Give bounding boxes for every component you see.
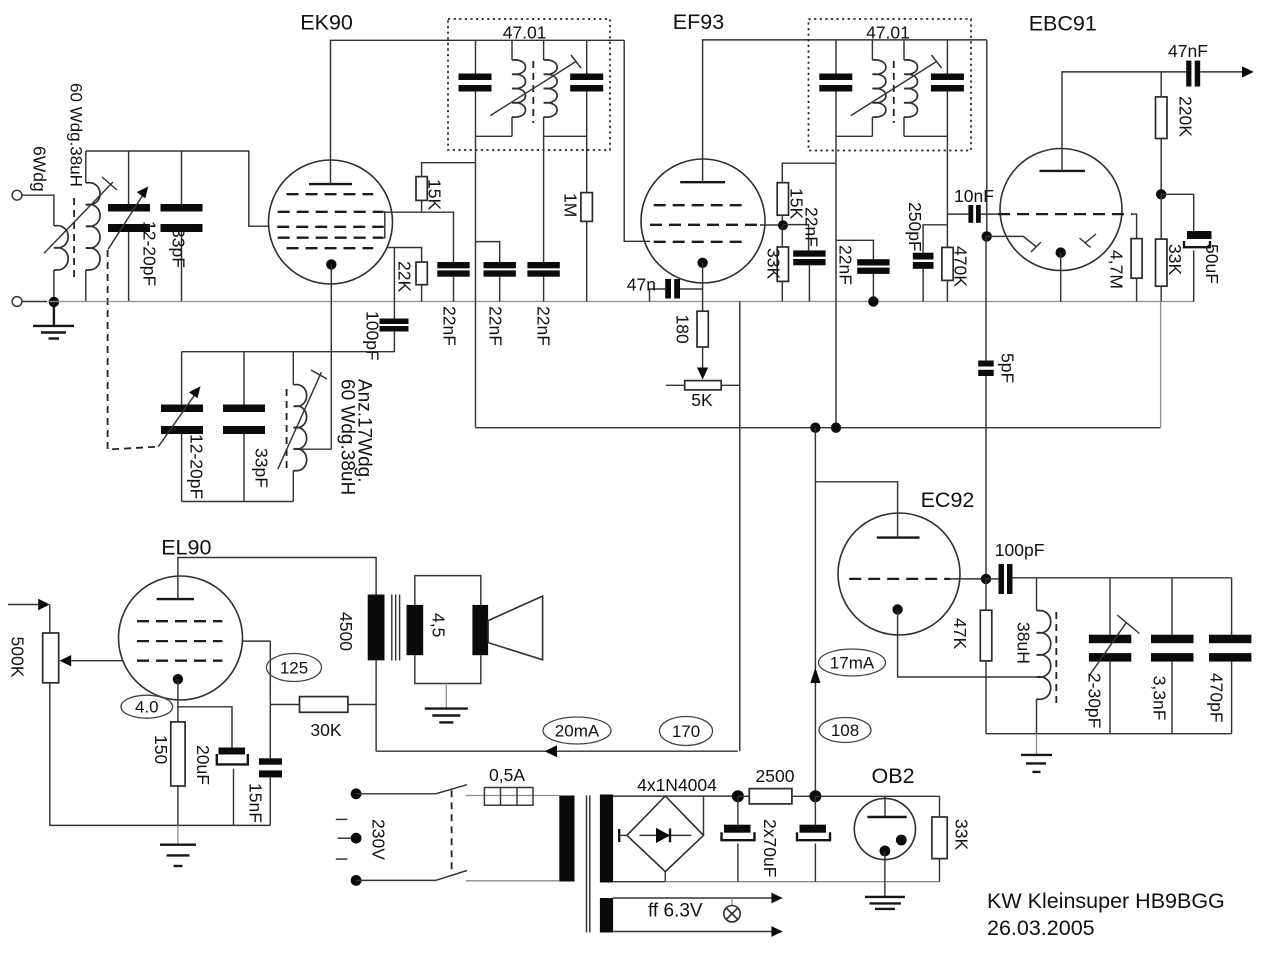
svg-text:20uF: 20uF	[193, 745, 213, 785]
wire 22nF no2 bottom to bus	[499, 277, 501, 302]
wire heater top lead	[613, 897, 772, 899]
wire EL90 plate to output transformer	[178, 558, 376, 600]
grid g3 dashes EL90	[137, 660, 222, 662]
wire 22K bottom to bus	[421, 285, 423, 302]
inductor L1 secondary 60Wdg.38uH	[86, 183, 100, 270]
wire EK90 g5 to 22K and 100pF	[387, 248, 422, 263]
anode bar OB2	[867, 816, 906, 818]
svg-text:4x1N4004: 4x1N4004	[637, 775, 717, 795]
wire IF2 left bottom link	[836, 135, 872, 137]
grid g3 dashes EF93	[654, 241, 746, 243]
svg-text:KW Kleinsuper HB9BGG: KW Kleinsuper HB9BGG	[987, 889, 1225, 913]
svg-text:17mA: 17mA	[830, 654, 875, 673]
ganged tuning dashed link	[108, 250, 159, 450]
PE mark	[336, 818, 348, 820]
svg-text:170: 170	[672, 722, 700, 741]
terminal mains L dot	[351, 788, 362, 799]
wire EK90 cathode down to oscillator coil tap	[330, 264, 332, 449]
svg-text:4.0: 4.0	[135, 698, 159, 717]
svg-text:Anz.17Wdg.: Anz.17Wdg.	[354, 379, 375, 483]
ground symbol EL90 rail	[160, 825, 196, 866]
wire IF2 right bottom link	[904, 135, 947, 137]
capacitor 22nF no2	[484, 262, 516, 268]
svg-text:33pF: 33pF	[252, 448, 272, 488]
grid g5 dashes EK90	[287, 247, 374, 249]
node AVC dot left	[810, 423, 820, 433]
capacitor 250pF	[913, 253, 934, 260]
wire input to pot top	[49, 605, 51, 634]
resistor 15K (EF93 screen)	[777, 183, 788, 216]
wire EL90 cathode to 150	[177, 679, 179, 722]
resistor 150 (EL90 cathode)	[171, 722, 185, 786]
svg-text:470K: 470K	[951, 246, 971, 287]
capacitor 10nF	[968, 205, 973, 223]
wire EF93 g2 to divider node	[760, 224, 783, 226]
input arrow from volume	[8, 604, 39, 606]
svg-text:22nF: 22nF	[534, 306, 554, 346]
wire 250pF bottom to bus	[922, 269, 924, 302]
grid g2 dashes EF93	[650, 224, 758, 226]
svg-text:47.01: 47.01	[866, 23, 910, 43]
wire 108V node to OB2 and 33K	[815, 795, 939, 797]
capacitor IF1 left	[459, 74, 492, 81]
bridge rectifier diamond	[627, 796, 704, 872]
diode symbol inside bridge	[640, 834, 692, 836]
cathode dot EL90	[173, 674, 183, 684]
wire 22nF no4 bottom to bus	[808, 265, 810, 301]
wire IF1 right bottom link	[544, 135, 587, 137]
grid g2 dashes EK90	[278, 211, 384, 213]
node 220K/33K junction dot	[1156, 189, 1166, 199]
wire 22nF no3 bottom to bus	[543, 277, 545, 302]
core 38uH dashed	[1055, 612, 1057, 708]
capacitor 22nF no5	[857, 259, 889, 265]
core oscillator coil dashed	[286, 389, 288, 471]
ground symbol speaker	[425, 709, 468, 723]
tube OB2 regulator envelope	[854, 798, 915, 859]
svg-text:470pF: 470pF	[1207, 673, 1227, 723]
wire OB2 cathode to ground	[884, 851, 886, 897]
capacitor 12-20pF no2 variable	[161, 405, 203, 413]
grid g4 dashes EK90	[278, 237, 384, 239]
wire 10nF right to EBC91 grid	[981, 213, 998, 215]
tube EC92 envelope	[838, 513, 960, 635]
resistor 220K (plate load)	[1156, 97, 1168, 139]
resistor 22K (EK90 osc grid leak)	[416, 262, 427, 285]
wire 47nF to AF out arrow	[1200, 71, 1243, 73]
core L1 dashed	[73, 198, 75, 280]
tube EL90 envelope	[119, 576, 243, 700]
screen bracket EK90 g2+g4	[383, 212, 385, 238]
resistor 180 (EF93 cathode)	[697, 311, 708, 347]
cathode dot EBC91	[1056, 247, 1066, 257]
node 108V dot	[809, 790, 821, 802]
svg-text:4,7M: 4,7M	[1107, 250, 1127, 289]
wire IF1 secondary top to EF93 g1	[624, 40, 650, 241]
trimmer slug diagonal IF1	[490, 62, 576, 116]
inductor IF2 primary	[872, 60, 886, 117]
svg-text:OB2: OB2	[872, 764, 915, 788]
arrow of variable capacitor no2	[158, 392, 196, 446]
wire grid to node	[950, 578, 986, 580]
wire pot bottom to ground rail	[50, 683, 270, 826]
node EC92 grid dot	[981, 574, 991, 584]
capacitor 3,3nF	[1151, 635, 1194, 644]
inductor L1 primary 6Wdg	[54, 226, 68, 270]
svg-text:1M: 1M	[561, 193, 581, 217]
wire bridge right vertex up	[703, 796, 705, 835]
wire osc coil bottom stem	[292, 471, 294, 502]
wire 1M bottom to bus	[586, 221, 588, 301]
diode plate left EBC91	[987, 236, 1036, 246]
resistor 47K (grid leak)	[980, 610, 992, 661]
inductor IF2 secondary	[904, 60, 918, 117]
svg-text:2500: 2500	[756, 766, 795, 786]
svg-text:180: 180	[673, 315, 693, 344]
wire AVC line horizontal	[476, 427, 1161, 429]
wire BFO tank bottom rail	[986, 733, 1232, 735]
wire 38uH stems	[1036, 578, 1038, 611]
core IF1 dashed	[532, 61, 534, 123]
wire 22nF no1 bottom to bus	[453, 277, 455, 302]
wire 33K stems	[939, 796, 941, 817]
wire L1 primary bottom to ground node	[53, 270, 55, 302]
svg-text:125: 125	[280, 659, 308, 678]
wire antenna tank top rail	[86, 151, 268, 226]
wire cathode tap to 20uF	[178, 707, 232, 748]
wire 15K bottom to node	[781, 215, 783, 225]
trimmer slug diagonal IF2	[851, 62, 937, 116]
wire divider node to 22nF no4	[783, 225, 809, 251]
wire 20uF bottom to rail	[233, 769, 235, 826]
wire osc coil top stem	[292, 352, 294, 385]
inductor IF1 primary	[512, 60, 526, 117]
wire 22nF no5 bottom to bus	[872, 274, 874, 302]
wire EC92 cathode to coil tap	[898, 610, 1037, 678]
wire 50uF bottom to bus	[1193, 250, 1195, 301]
wire 2500 leads	[738, 795, 749, 797]
wire IF2 left cap stems	[835, 40, 837, 74]
wire IF2 secondary bottom to 10nF	[947, 213, 968, 215]
ellipse 108	[819, 718, 871, 743]
grid g1 dashes EK90	[287, 193, 374, 195]
wire EBC91 plate up to output node	[1062, 72, 1186, 171]
svg-text:EK90: EK90	[300, 11, 353, 35]
capacitor 22nF no4	[793, 250, 825, 256]
anode plate bar EC92	[877, 536, 920, 538]
wire 220K bottom to node	[1160, 139, 1162, 195]
wiper arrow 500K from EL90 g1	[71, 660, 123, 662]
wire 47n left to bus	[650, 289, 666, 302]
capacitor 33pF no2	[223, 405, 265, 413]
wire 4.7M bottom to bus	[1136, 278, 1138, 301]
wire EF93 plate to IF2 top	[703, 40, 987, 182]
capacitor 2-30pF trimmer	[1089, 635, 1131, 644]
capacitor 2x70uF no2 electrolytic	[800, 825, 827, 833]
diode plate right EBC91	[1085, 234, 1096, 243]
wire 250pF tap	[923, 225, 947, 253]
wire 470K bottom to bus	[946, 280, 948, 301]
resistor 470K (detector load)	[942, 247, 953, 280]
wire IF1 right cap stems	[586, 40, 588, 73]
wire OPT primary bottom down to B+ line	[375, 660, 377, 751]
node screen divider dot	[778, 220, 788, 230]
AC mark inside bridge	[618, 829, 620, 842]
capacitor IF1 right	[570, 74, 603, 81]
svg-text:5K: 5K	[691, 390, 713, 410]
wire L1 secondary bottom to bus	[85, 270, 87, 302]
svg-text:33K: 33K	[1165, 244, 1185, 275]
ellipse 17mA	[819, 649, 886, 676]
svg-text:220K: 220K	[1176, 96, 1196, 137]
wire osc tank bottom rail	[182, 501, 294, 503]
ground symbol BFO tank	[1021, 755, 1052, 772]
wire mains L to switch	[356, 793, 436, 795]
terminal antenna input 1	[12, 190, 22, 200]
svg-text:38uH: 38uH	[1014, 622, 1034, 664]
grid dashes EBC91	[998, 213, 1132, 215]
svg-text:100pF: 100pF	[995, 540, 1045, 560]
ellipse 20mA	[543, 717, 611, 744]
svg-text:230V: 230V	[369, 819, 389, 860]
switch blade 2	[436, 871, 467, 881]
wire terminal1 to L1 primary	[22, 195, 54, 226]
node detector diode junction dot	[982, 231, 992, 241]
grid g1 dashes EL90	[137, 620, 222, 622]
fuse 0,5A	[484, 788, 533, 806]
resistor 1M (EF93 grid leak)	[581, 193, 593, 222]
resistor 33K (OB2 ballast)	[932, 817, 947, 859]
svg-text:12-20pF: 12-20pF	[187, 434, 207, 499]
cathode dot EK90	[326, 259, 336, 269]
capacitor 50uF electrolytic	[1187, 231, 1212, 239]
capacitor 2x70uF no1 electrolytic	[724, 825, 751, 833]
svg-text:0,5A: 0,5A	[489, 765, 525, 785]
wire node to 50uF	[1161, 194, 1194, 231]
capacitor 47n (cathode bypass)	[665, 279, 671, 299]
wire osc tank top rail	[182, 351, 395, 353]
grid dashes EC92	[849, 578, 950, 580]
inductor oscillator coil 60Wdg	[294, 385, 307, 471]
wire BFO tank top rail	[1013, 577, 1232, 579]
capacitor IF2 left	[819, 74, 852, 81]
wire PSU bottom rail	[665, 881, 939, 883]
anode plate bar EF93	[680, 181, 725, 183]
resistor 15K (EK90 screen feed)	[416, 177, 427, 201]
svg-text:15K: 15K	[425, 179, 445, 210]
svg-text:EBC91: EBC91	[1029, 12, 1097, 36]
wire 108V riser	[814, 428, 816, 797]
capacitor C2 33pF	[161, 204, 203, 212]
cathode dot EC92	[892, 604, 902, 614]
wire 47K stems	[985, 579, 987, 610]
wire IF1 left cap stems	[475, 40, 477, 73]
wire mains N to switch	[356, 879, 436, 881]
node 22nF no5 bus dot	[868, 296, 878, 306]
resistor 33K (EF93 screen divider)	[777, 247, 788, 281]
wire 22nF no5 tap	[836, 240, 873, 259]
capacitor 100pF BFO coupling	[999, 564, 1005, 594]
wire 22nF no2 tap	[476, 242, 500, 262]
svg-text:500K: 500K	[8, 637, 28, 678]
node B+ feed line IF2 left down to AVC	[835, 136, 837, 427]
svg-text:22nF: 22nF	[836, 245, 856, 285]
ellipse 4.0	[121, 695, 173, 718]
grid g1 dashes EF93	[654, 204, 746, 206]
wire 15K top to IF2 B+ line	[782, 163, 836, 183]
capacitor 20uF electrolytic	[219, 748, 246, 755]
ellipse 125	[267, 654, 322, 682]
potentiometer 500K volume	[43, 633, 59, 683]
wire osc coil tap to EK90 cathode	[294, 448, 332, 450]
trimmer slug diagonal of osc coil	[278, 372, 322, 469]
transformer OPT primary winding	[368, 595, 385, 661]
wire IF2 top right corner down to detector	[986, 40, 988, 237]
wire 20mA line	[376, 750, 738, 752]
svg-text:50uF: 50uF	[1202, 244, 1222, 284]
core OPT lines	[391, 595, 393, 661]
node AVC dot right	[831, 423, 841, 433]
tube EK90 envelope	[269, 160, 393, 284]
wire terminal2 to ground node	[22, 301, 47, 303]
arrow of variable capacitor C1	[108, 193, 144, 250]
svg-text:33pF: 33pF	[169, 228, 189, 268]
svg-text:6Wdg: 6Wdg	[30, 146, 50, 192]
wire 100pF bottom to osc tank rail	[393, 332, 395, 353]
wire switch to fuse to transformer	[466, 795, 560, 797]
wire grid to 4.7M	[1132, 214, 1137, 239]
svg-text:47K: 47K	[950, 618, 970, 649]
svg-text:33K: 33K	[952, 819, 972, 850]
wire screen node to 15K and 22nF	[385, 212, 454, 262]
svg-text:150: 150	[151, 735, 171, 764]
wire EK90 plate to IF1 top	[331, 40, 625, 184]
svg-text:EL90: EL90	[161, 536, 211, 560]
wire 15K top to B+ line	[422, 163, 476, 177]
wire 33K stems	[1160, 194, 1162, 239]
node B+ raw dot	[732, 790, 744, 802]
svg-text:20mA: 20mA	[555, 722, 600, 741]
capacitor C1 12-20pF variable	[108, 204, 150, 212]
shield box IF1 dotted	[448, 19, 610, 150]
wiper arrow to 5K pot	[702, 347, 704, 369]
wire IF1 left bottom link	[476, 135, 513, 137]
svg-text:47.01: 47.01	[503, 23, 547, 43]
node B+ feed line IF1 left	[475, 136, 477, 427]
wire screen down with 30K tap	[269, 641, 271, 758]
ground stem speaker circuit	[445, 684, 447, 708]
svg-text:60 Wdg.38uH: 60 Wdg.38uH	[67, 83, 86, 187]
wire HT bottom to bridge bottom	[613, 881, 665, 883]
svg-text:30K: 30K	[310, 720, 341, 740]
wire 22nF no3 top stem from IF1 secondary	[543, 136, 545, 262]
svg-text:108: 108	[831, 721, 859, 740]
wire 100pF top to g5 line	[393, 248, 395, 319]
wire 15nF bottom to rail	[269, 777, 271, 825]
lamp dial	[731, 898, 733, 906]
inductor 38uH	[1037, 610, 1051, 699]
capacitor 47nF output coupling	[1186, 61, 1191, 87]
resistor 33K (EBC91 divider)	[1156, 239, 1168, 286]
wire EF93 cathode down to 180	[702, 263, 704, 311]
wire screen tap to 30K	[270, 704, 299, 706]
svg-text:3,3nF: 3,3nF	[1150, 676, 1170, 721]
wire AVC right end up to bus	[1160, 302, 1162, 428]
cathode dot EF93	[697, 258, 707, 268]
electrode dots OB2	[896, 835, 907, 846]
wire L1 secondary top to rail	[85, 151, 87, 183]
svg-text:12-20pF: 12-20pF	[140, 221, 160, 286]
speaker voice coil bar	[472, 605, 488, 655]
svg-text:5pF: 5pF	[998, 353, 1018, 383]
svg-text:4,5: 4,5	[429, 613, 449, 637]
wire bridge minus stub	[664, 872, 666, 882]
capacitor 15nF	[259, 758, 282, 764]
wire secondary to speaker bottom	[415, 655, 481, 683]
wire EC92 plate to 108V riser	[815, 482, 897, 538]
ground symbol OB2	[865, 897, 905, 909]
svg-text:EC92: EC92	[921, 488, 975, 512]
svg-text:2-30pF: 2-30pF	[1085, 673, 1105, 728]
arrow 20mA left	[545, 745, 558, 757]
wire secondary to speaker top	[415, 576, 481, 605]
svg-text:33K: 33K	[764, 248, 784, 279]
capacitor 22nF no3	[527, 262, 559, 268]
anode plate bar EK90	[309, 183, 352, 185]
svg-text:47n: 47n	[627, 275, 656, 295]
wire 5K left stub	[666, 384, 685, 386]
wire grid node to 100pF	[986, 578, 999, 580]
tube EBC91 envelope	[1000, 149, 1122, 271]
wire 150 bottom to rail	[177, 786, 179, 825]
wire main ground bus	[48, 301, 1194, 303]
transformer mains primary winding	[559, 796, 574, 882]
inductor IF1 secondary	[544, 60, 558, 117]
terminal mains PE dot	[351, 833, 362, 844]
terminal antenna input 2	[12, 297, 22, 307]
node ground junction dot	[49, 297, 59, 307]
transformer heater winding	[600, 898, 613, 933]
resistor 2500 (filter)	[749, 789, 792, 804]
svg-text:26.03.2005: 26.03.2005	[987, 916, 1095, 940]
svg-text:10nF: 10nF	[954, 186, 994, 206]
switch link dashed	[451, 790, 453, 870]
wire 38uH ground stem	[1036, 734, 1038, 754]
core power transformer	[586, 795, 588, 932]
wire switch 2 to transformer	[466, 880, 560, 882]
capacitor 470pF	[1209, 635, 1251, 644]
capacitor 100pF (osc feedback)	[380, 319, 409, 325]
svg-text:22nF: 22nF	[486, 306, 506, 346]
transformer OPT secondary winding	[407, 605, 424, 655]
capacitor 5pF	[978, 361, 994, 367]
svg-text:250pF: 250pF	[905, 202, 925, 252]
wire IF2 right cap stems	[946, 40, 948, 74]
svg-text:100pF: 100pF	[363, 311, 383, 361]
capacitor IF2 right	[931, 74, 964, 81]
wire OB2 anode stem	[884, 796, 886, 817]
svg-text:47nF: 47nF	[1168, 41, 1208, 61]
anode plate bar EBC91	[1040, 170, 1086, 172]
wire 15K bottom to screen node	[421, 200, 423, 212]
svg-text:22nF: 22nF	[802, 207, 822, 247]
svg-text:ff 6.3V: ff 6.3V	[648, 901, 703, 922]
wire 33K stems	[781, 225, 783, 247]
tube EF93 envelope	[641, 159, 765, 283]
svg-text:15nF: 15nF	[246, 783, 266, 823]
svg-text:4500: 4500	[336, 612, 356, 651]
transformer HT secondary winding	[600, 795, 613, 883]
